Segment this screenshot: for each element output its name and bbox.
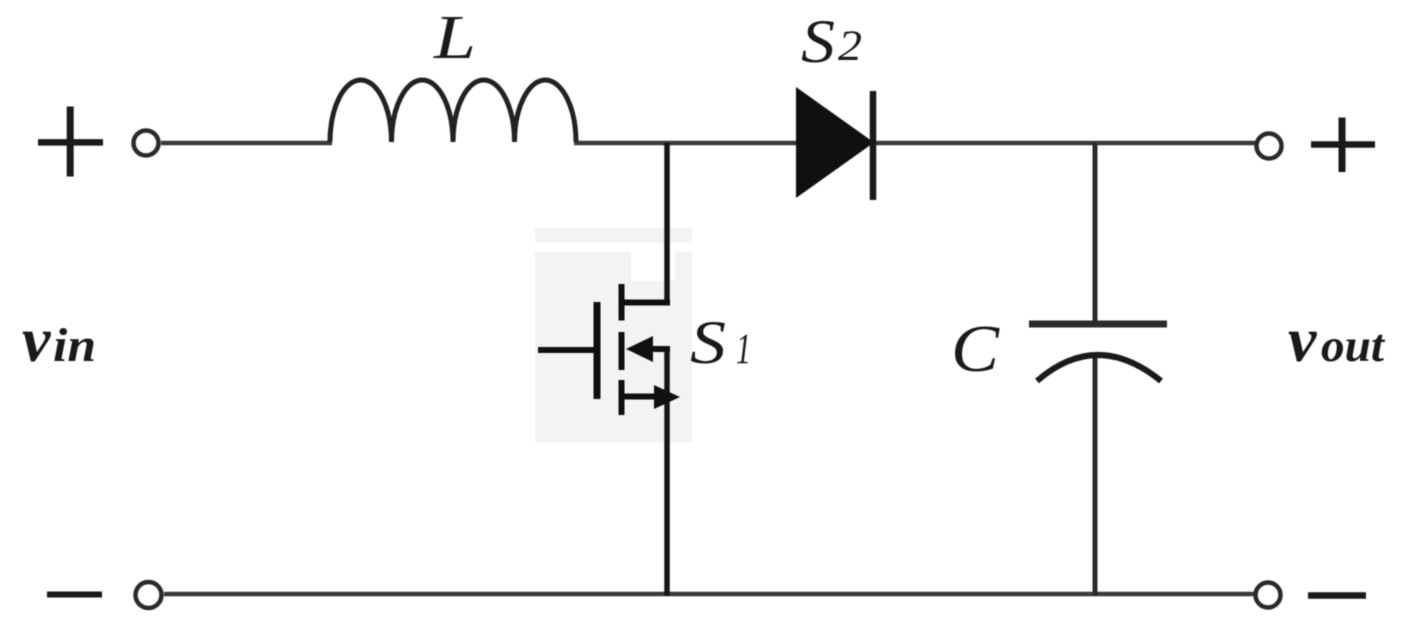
svg-text:v: v <box>1288 304 1317 375</box>
svg-text:L: L <box>433 4 476 72</box>
svg-text:S: S <box>801 9 835 76</box>
svg-text:C: C <box>951 312 1000 386</box>
svg-text:v: v <box>22 304 51 375</box>
svg-text:S: S <box>690 310 726 377</box>
svg-text:2: 2 <box>838 23 862 70</box>
svg-text:out: out <box>1321 320 1386 372</box>
svg-text:1: 1 <box>736 326 751 373</box>
svg-text:in: in <box>53 319 96 372</box>
